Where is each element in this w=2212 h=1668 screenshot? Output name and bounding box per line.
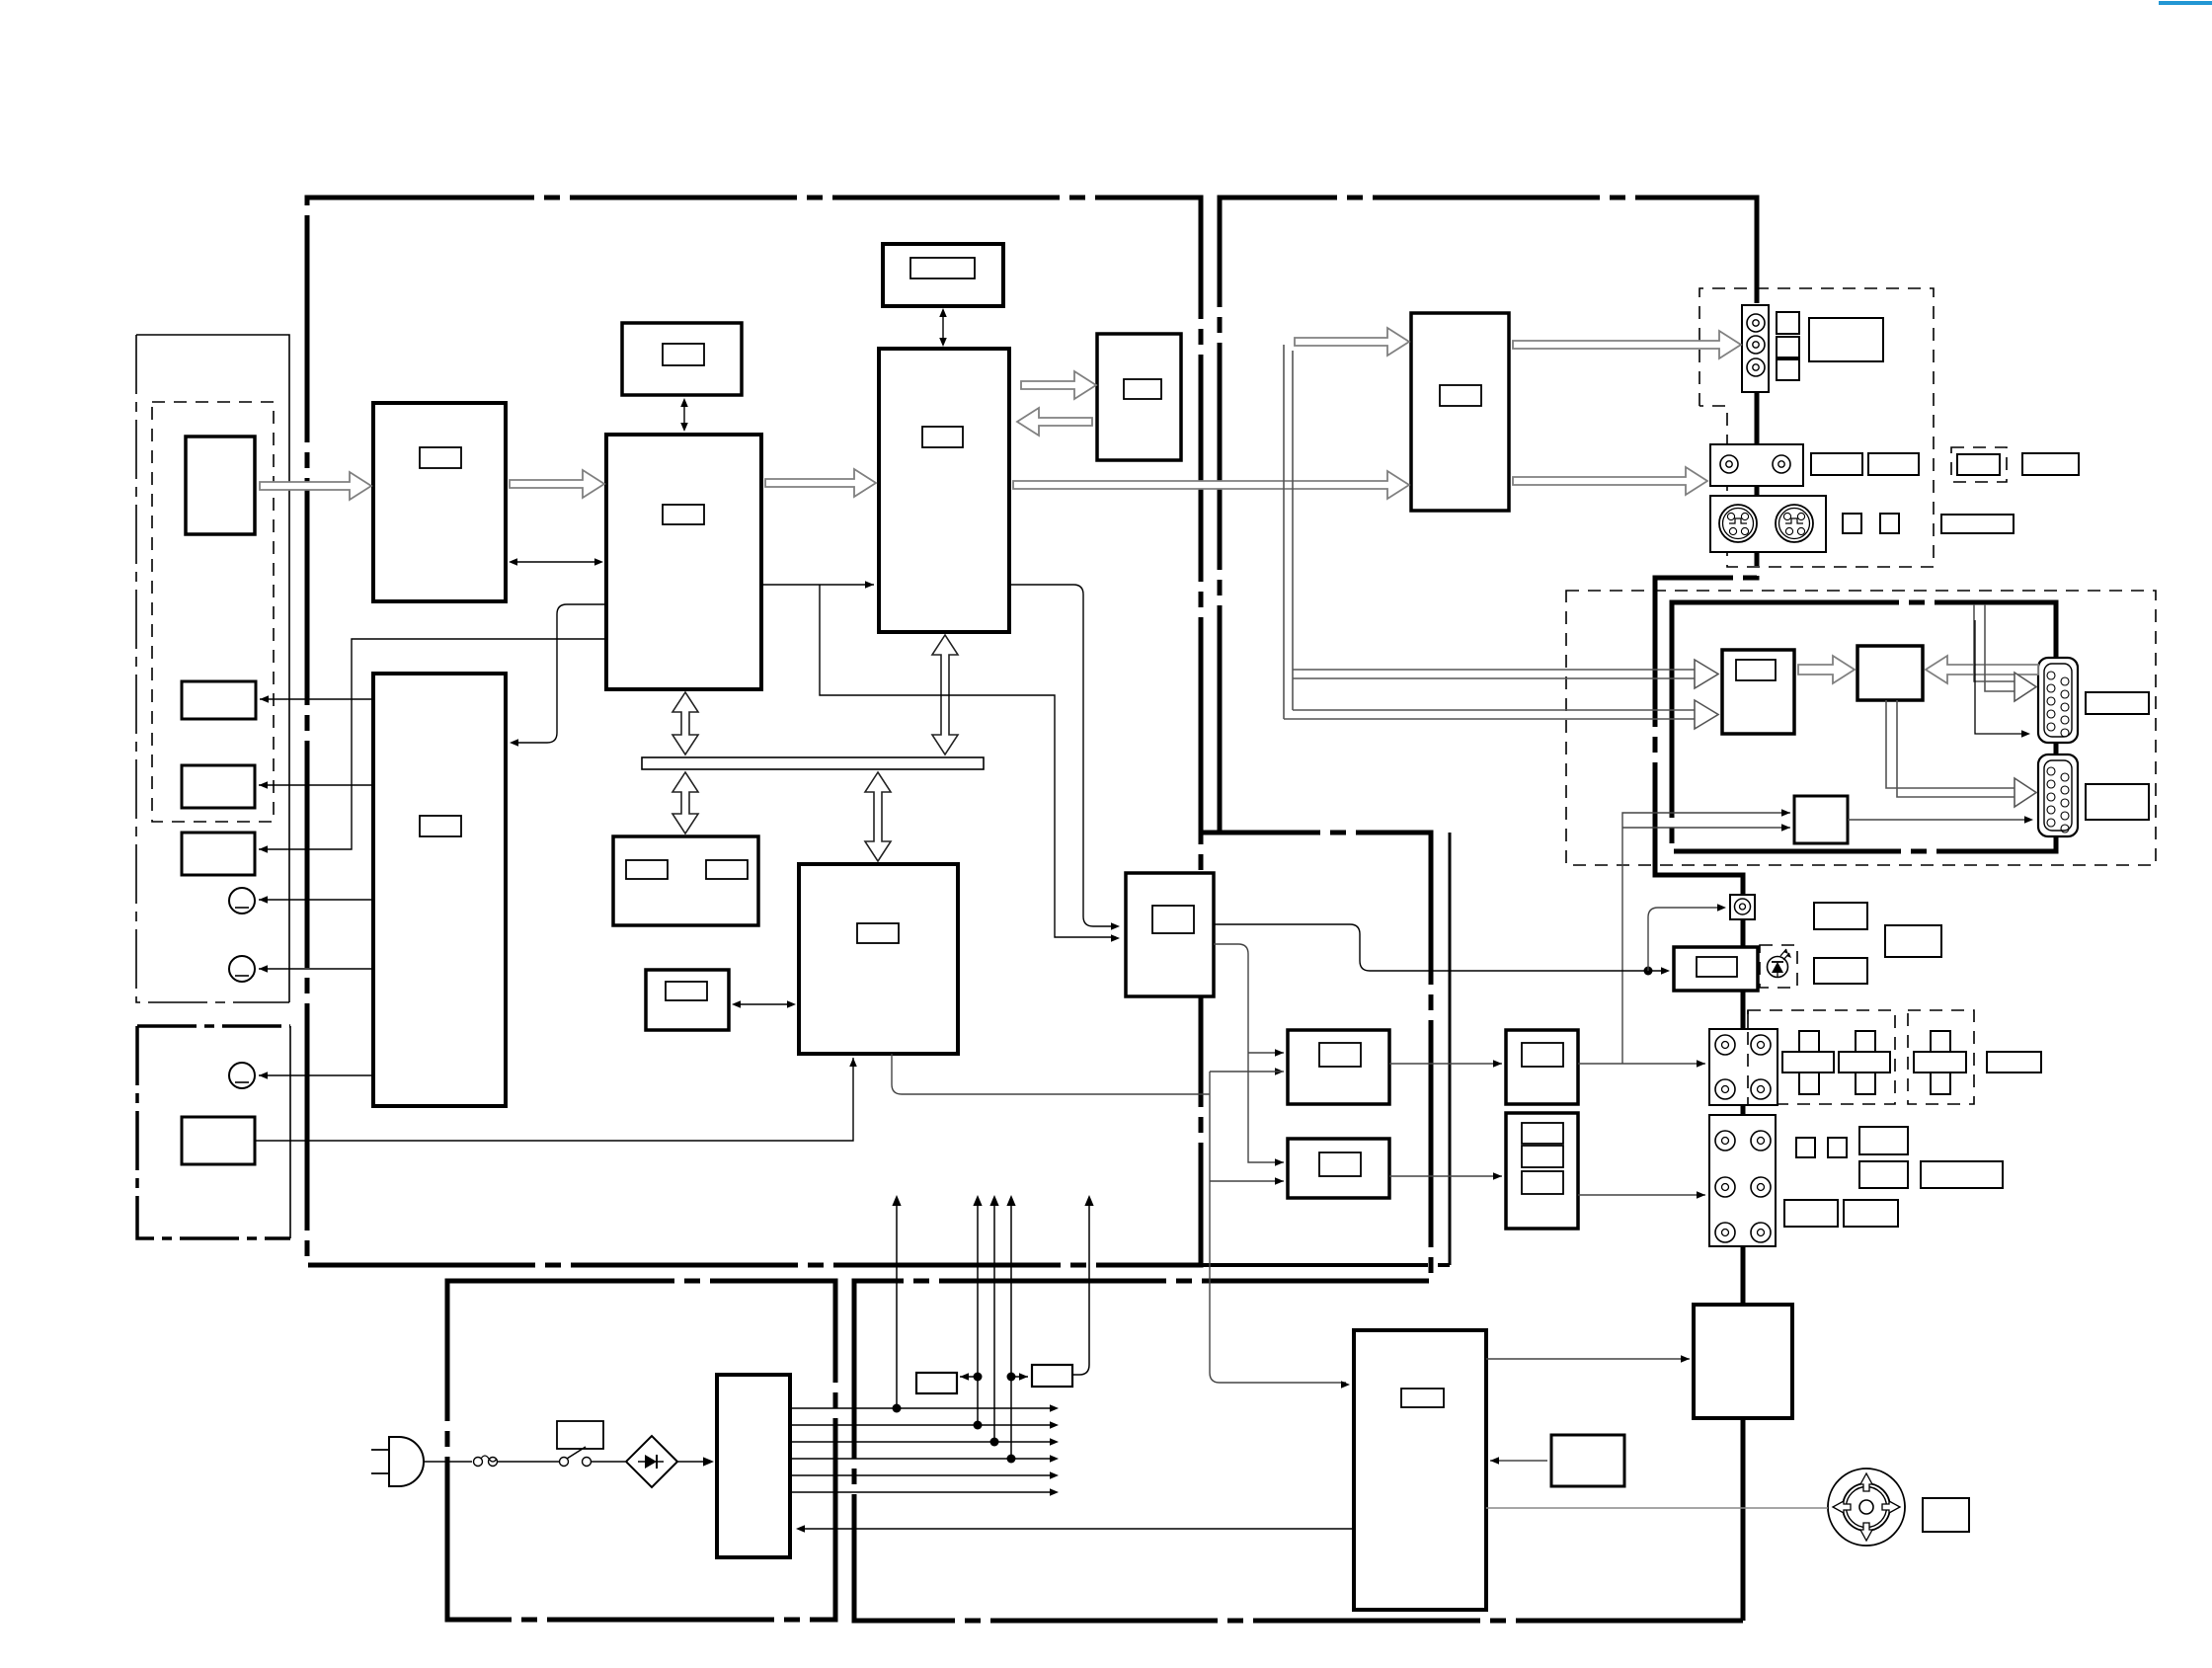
buffer2 label 3	[1522, 1171, 1563, 1194]
audio DAC block 1	[1288, 1030, 1389, 1104]
RF/servo driver block U8	[1354, 1330, 1486, 1610]
IR LED symbol	[1768, 957, 1788, 978]
video bus vertical pair	[1283, 345, 1285, 719]
optical out connector	[1730, 895, 1755, 919]
wire buffer2 to audio jacks	[1578, 1194, 1705, 1196]
hollow double arrow bus - mecha controller	[865, 772, 891, 861]
power switch symbol	[560, 1458, 569, 1467]
jack cluster plus 1	[1782, 1052, 1834, 1072]
wire front-end to key B	[259, 784, 373, 786]
sensor block	[1551, 1435, 1624, 1486]
AV decoder block U4	[879, 349, 1009, 632]
double arrow display - front-end	[683, 401, 685, 429]
system bus bar	[642, 757, 984, 769]
arrow Y/C to RGB block	[1798, 656, 1855, 683]
wire riser4 to R2	[1011, 1376, 1028, 1378]
front key block C	[182, 833, 255, 875]
hollow double arrow bus - EEPROM	[672, 772, 698, 834]
power regulator block	[717, 1375, 790, 1557]
power riser 1	[896, 1201, 898, 1408]
page link line	[2159, 1, 2212, 5]
wire rectifier to regulator	[677, 1461, 710, 1463]
small dashed label box	[1951, 447, 2007, 482]
power rail 3	[790, 1441, 1056, 1443]
DAC1 IC label	[1319, 1043, 1361, 1067]
SDRAM IC label	[910, 258, 975, 278]
audio out buffer block 1	[1506, 1030, 1578, 1104]
lower rear square 1	[1796, 1138, 1815, 1157]
line into upper D-sub pin	[1975, 620, 2024, 734]
arrow front-end to AV decoder	[765, 469, 876, 497]
s-video wide label	[1941, 515, 2014, 533]
audio RCA jack block (6)	[1709, 1115, 1776, 1246]
DAC split vertical	[1210, 1072, 1346, 1383]
s-video label square 1	[1843, 514, 1861, 533]
lower panel block C2	[182, 1117, 255, 1164]
AC plug symbol	[389, 1437, 424, 1486]
buffer1 IC label	[1522, 1043, 1563, 1067]
power rail 2	[790, 1424, 1056, 1426]
dashed-box label rect	[1957, 454, 2000, 475]
wire sync to lower D-sub	[1848, 819, 2029, 821]
fuse symbol	[474, 1458, 483, 1467]
loading motor symbol	[1828, 1469, 1905, 1546]
power riser 5	[1072, 1201, 1089, 1375]
wire buffer1 to audio jacks	[1578, 1063, 1705, 1065]
rear label rect 2	[1885, 925, 1941, 957]
audio out buffer block 2	[1506, 1113, 1578, 1229]
lower rear label 4	[1844, 1200, 1898, 1227]
bus into upper D-sub	[1974, 604, 2014, 691]
arrow antenna to tuner	[260, 472, 371, 500]
power rail 6	[790, 1491, 1056, 1493]
phones jack 1	[229, 888, 255, 913]
fuse label rect	[557, 1421, 603, 1449]
double arrow reset - mecha controller	[735, 1003, 793, 1005]
lower rear label 2	[1859, 1161, 1908, 1188]
video bus branch Y	[1293, 669, 1695, 671]
wire front-end to key A	[260, 698, 373, 700]
U7 IC label	[1152, 906, 1194, 933]
reset IC label	[666, 982, 707, 1000]
tuner IC label	[420, 447, 461, 468]
power riser 2	[977, 1201, 979, 1425]
wire front-end branch to audio DSP	[820, 585, 1116, 937]
arrow video encoder to composite jacks	[1513, 467, 1707, 495]
lower rear square 2	[1828, 1138, 1847, 1157]
arrow bus into video encoder	[1295, 328, 1409, 356]
buffer2 label 1	[1522, 1123, 1563, 1144]
rear label rect 1	[1814, 903, 1867, 929]
double arrow tuner - front-end	[512, 561, 600, 563]
SDRAM block	[883, 244, 1003, 306]
EEPROM IC label 1	[626, 860, 668, 879]
front key block B	[182, 765, 255, 808]
display IC label	[663, 344, 704, 365]
motor driver block	[1694, 1305, 1792, 1418]
wire audio DSP digital out	[1214, 924, 1666, 971]
main board outline M1	[307, 198, 1201, 1265]
wire AV decoder to audio DSP	[1009, 585, 1116, 926]
wire amp to phones jack 1	[259, 899, 373, 901]
wire U2 to key C	[259, 639, 606, 849]
U6 IC label	[857, 923, 899, 943]
component output dashed box	[1699, 288, 1934, 567]
wire audio DSP to DACs	[1214, 944, 1284, 1162]
power rail 1	[790, 1407, 1056, 1409]
rear label rect 3	[1814, 958, 1867, 984]
connector chain thick line	[1726, 875, 1743, 1621]
flash ROM IC label	[1124, 379, 1161, 399]
U3 IC label	[420, 816, 461, 836]
audio DAC block 2	[1288, 1139, 1389, 1198]
wire riser2 to R1	[960, 1376, 978, 1378]
buffer2 label 2	[1522, 1146, 1563, 1167]
jack cluster right label	[1987, 1052, 2041, 1072]
component label square 2	[1777, 337, 1799, 357]
wire DAC2 to buffer2	[1389, 1175, 1502, 1177]
wire RF block to motor driver	[1486, 1358, 1690, 1360]
sync block	[1794, 796, 1848, 843]
motor label rect	[1923, 1498, 1969, 1532]
component label square 1	[1777, 312, 1799, 334]
U4 IC label	[922, 427, 963, 447]
power return wire	[798, 1528, 1354, 1530]
bus RGB to lower D-sub	[1886, 700, 2014, 797]
D-sub connector lower	[2038, 755, 2078, 836]
composite label rect 3	[2022, 453, 2079, 475]
rear AV dashed box	[1566, 591, 2156, 865]
wire mecha controller to DAC split	[892, 1054, 1210, 1094]
hollow double arrow front-end - bus	[672, 692, 698, 755]
display block	[622, 323, 742, 395]
lower rear label 1	[1859, 1127, 1908, 1154]
lower front panel box	[289, 1026, 291, 1238]
EEPROM IC label 2	[706, 860, 748, 879]
sub regulator R1	[916, 1373, 957, 1393]
power rail 5	[790, 1474, 1056, 1476]
Y/C IC label	[1736, 660, 1776, 680]
AC line wire	[424, 1461, 472, 1463]
wire U2 elbow to amp	[512, 604, 606, 743]
headphone amp IC label	[1697, 957, 1737, 977]
monitor branch up to sync	[1622, 813, 1790, 1064]
DAC2 IC label	[1319, 1152, 1361, 1176]
mecha controller block U6	[799, 864, 958, 1054]
monitor label rect upper	[2086, 692, 2149, 714]
servo/mecha board border polyline	[854, 833, 1743, 1621]
bridge rectifier	[626, 1436, 677, 1487]
jack cluster plus 3	[1914, 1052, 1966, 1072]
audio amp block U3 (tall left)	[373, 674, 506, 1106]
power supply board outline	[447, 1281, 835, 1620]
U5 IC label	[1440, 385, 1481, 406]
Y/C separator block	[1722, 650, 1794, 734]
component video RCA jack block	[1742, 305, 1769, 392]
component label square 3	[1777, 359, 1799, 380]
audio RCA jack block (4)	[1709, 1029, 1777, 1105]
component wide label	[1809, 318, 1883, 361]
phones jack 3	[229, 1063, 255, 1088]
wire amp to phones jack 3	[259, 1074, 373, 1076]
arrow video encoder to component jacks	[1513, 331, 1741, 358]
reset block	[646, 970, 729, 1030]
wire sensor to RF block	[1490, 1460, 1547, 1462]
audio output dashed group 1	[1748, 1010, 1895, 1104]
double arrow SDRAM - AV decoder	[942, 311, 944, 344]
video bus branch C	[1284, 718, 1695, 720]
composite video RCA jack block	[1710, 444, 1803, 486]
arrow flash ROM to AV decoder	[1017, 408, 1092, 436]
audio DSP block U7	[1126, 873, 1214, 996]
video encoder block U5	[1411, 313, 1509, 511]
composite label rect 1	[1811, 453, 1862, 475]
flash ROM block	[1097, 334, 1181, 460]
monitor label rect lower	[2086, 784, 2149, 820]
power rail 4	[790, 1458, 1056, 1460]
rear panel dashed line over jack block	[1747, 1010, 1749, 1104]
sub regulator R2	[1032, 1365, 1072, 1387]
D-sub connector upper	[2038, 658, 2078, 743]
tuner block U1	[373, 403, 506, 601]
arrow AV decoder to flash ROM	[1021, 371, 1096, 399]
front-end block U2	[606, 435, 761, 689]
lower rear long label	[1921, 1161, 2003, 1188]
antenna input block	[186, 437, 255, 534]
board divider line	[1449, 833, 1452, 1265]
wire RF block to loading motor	[1486, 1507, 1828, 1509]
lower rear label 3	[1784, 1200, 1838, 1227]
IR emitter dashed box	[1760, 945, 1797, 988]
arrow AV decoder to video encoder	[1013, 471, 1409, 499]
U8 IC label	[1401, 1389, 1444, 1407]
wire DAC1 to buffer1	[1389, 1063, 1502, 1065]
audio output dashed group 2	[1908, 1010, 1974, 1104]
jack cluster plus 2	[1839, 1052, 1890, 1072]
front key block A	[182, 681, 256, 719]
s-video jack block	[1710, 496, 1826, 552]
EEPROM block	[613, 836, 758, 925]
branch to optical out	[1648, 908, 1722, 971]
s-video label square 2	[1880, 514, 1899, 533]
main board bottom extension	[1201, 1263, 1450, 1267]
power riser 3	[993, 1201, 995, 1442]
RGB converter block	[1857, 646, 1923, 700]
AV jack board outline	[1672, 602, 2056, 851]
wire front-end to AV decoder serial	[761, 584, 874, 586]
phones jack 2	[229, 956, 255, 982]
power riser 4	[1010, 1201, 1012, 1459]
front panel outer box	[136, 335, 289, 1002]
wire amp to phones jack 2	[259, 968, 373, 970]
hollow double arrow AV decoder - bus	[932, 635, 958, 755]
video output board outline V	[1220, 198, 1757, 875]
front panel inner dashed box	[152, 402, 274, 822]
wire panel C2 to mecha controller	[255, 1058, 853, 1141]
arrow tuner to front-end	[510, 470, 604, 498]
arrow monitor into RGB block	[1926, 656, 2038, 683]
composite label rect 2	[1868, 453, 1919, 475]
U2 IC label	[663, 505, 704, 524]
headphone amp block	[1674, 947, 1758, 991]
